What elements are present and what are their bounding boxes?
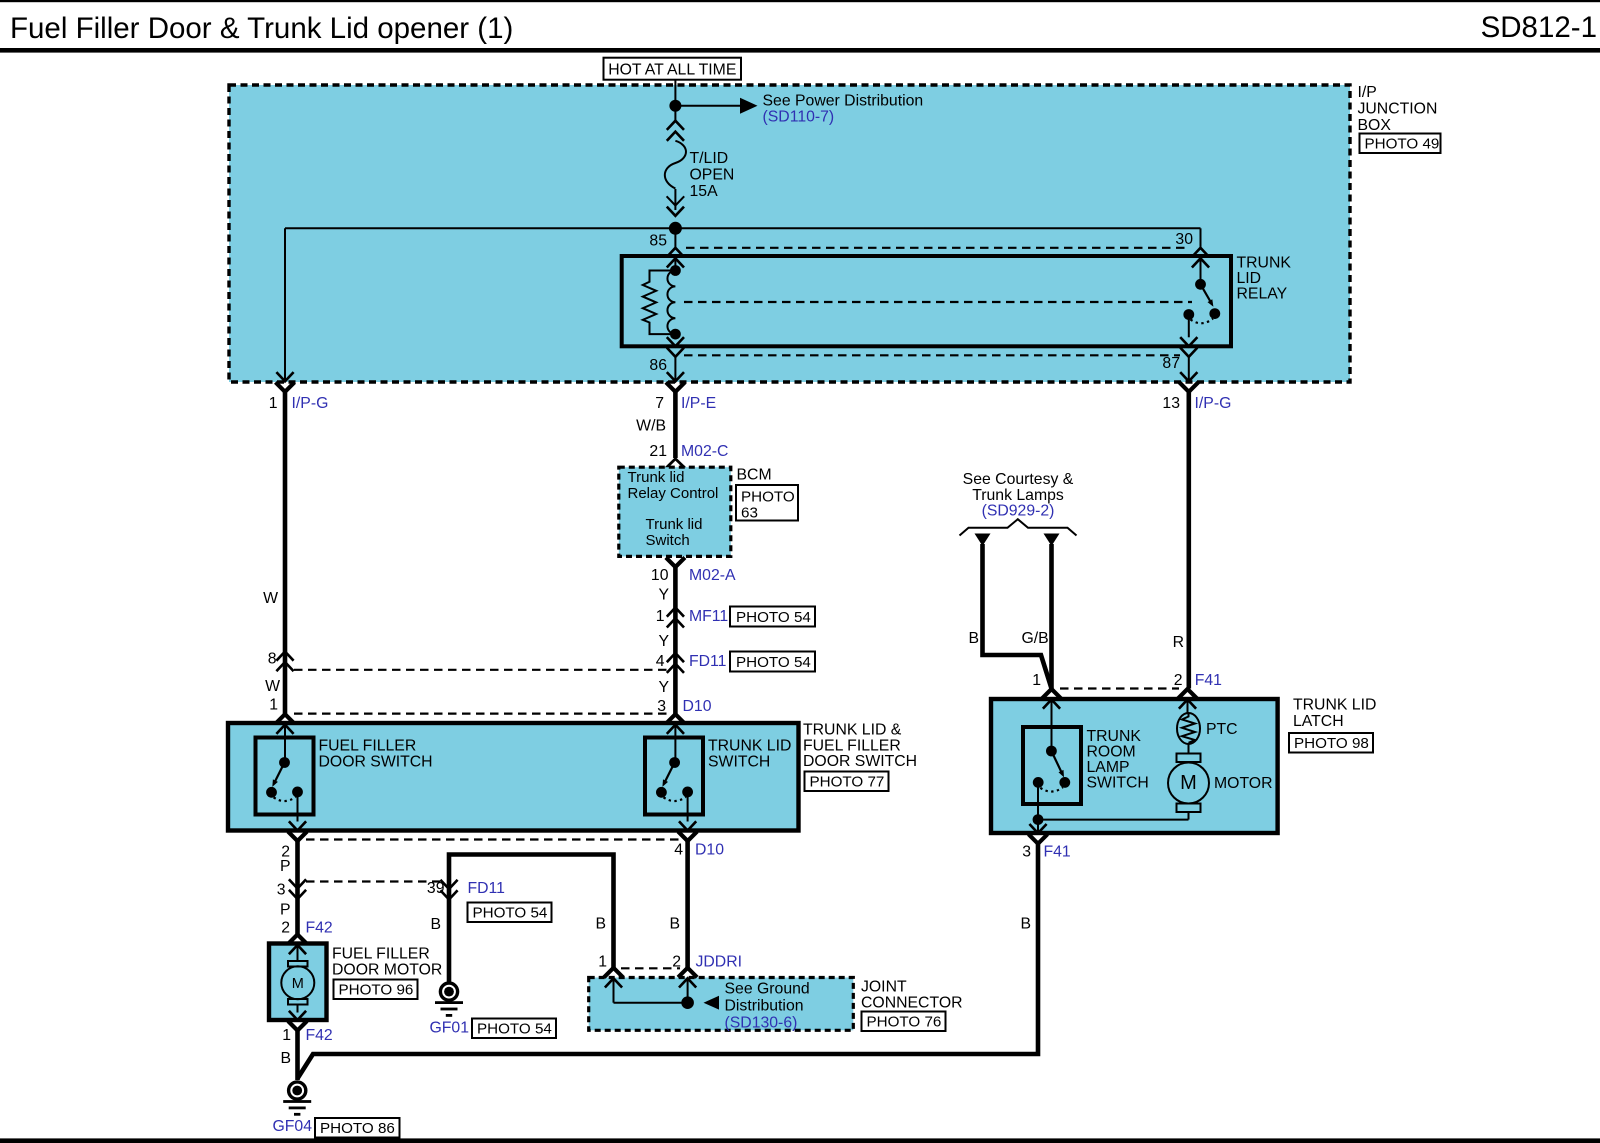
courtesy arrow G/B [1044,534,1060,547]
svg-text:G/B: G/B [1022,630,1049,647]
svg-text:T/LID: T/LID [690,150,729,167]
svg-text:M: M [292,976,304,992]
svg-text:Trunk lid: Trunk lid [628,469,685,486]
wire to relay pin 85 [674,228,676,247]
node junction dot above relay [669,222,682,235]
I/P box exit pin 1 I/P-G [276,372,293,381]
svg-text:3: 3 [277,882,286,899]
svg-text:(SD130-6): (SD130-6) [725,1015,798,1032]
dashed row 8 to 4 [294,669,667,671]
joint connector box (blue dashed) [589,978,854,1031]
svg-text:OPEN: OPEN [690,167,735,184]
svg-text:DOOR SWITCH: DOOR SWITCH [803,753,917,770]
svg-text:3: 3 [657,698,666,715]
page top border [0,0,1600,2]
trunk lid switch symbol [656,725,693,822]
fuel filler door motor symbol [281,945,314,1013]
svg-text:7: 7 [655,395,664,412]
svg-text:Trunk lid: Trunk lid [646,516,703,533]
svg-text:BCM: BCM [737,467,772,484]
I/P box exit pin 13 I/P-G [1180,372,1197,381]
fuel filler door switch sub box [256,738,314,815]
switch assembly box [228,723,799,831]
fuel filler door switch symbol [266,725,303,822]
motor exit pin 1 F42 [289,1011,306,1020]
svg-text:GF04: GF04 [273,1118,313,1135]
PHOTO 98 box [1289,733,1373,753]
svg-text:LATCH: LATCH [1293,713,1344,730]
ground GF04 [283,1082,311,1116]
latch pin 1 connector [1042,689,1061,699]
BCM box (blue dashed) [619,467,731,556]
pin 85 connector [667,248,684,257]
svg-text:BOX: BOX [1358,117,1392,134]
svg-text:PHOTO 77: PHOTO 77 [810,774,885,791]
svg-text:8: 8 [268,651,277,668]
wire motor to GF04 [295,1031,300,1081]
svg-text:30: 30 [1175,231,1193,248]
trunk lid switch sub box [645,738,703,815]
svg-text:3: 3 [1022,844,1031,861]
node junction dot at power feed [669,100,681,112]
svg-text:15A: 15A [690,183,719,200]
dashed pin row 85-30 [686,247,1190,249]
svg-text:B: B [430,916,441,933]
svg-text:See Courtesy &: See Courtesy & [963,471,1074,488]
svg-text:SWITCH: SWITCH [708,754,770,771]
svg-text:F42: F42 [306,1027,333,1044]
svg-text:PHOTO 54: PHOTO 54 [473,905,548,922]
svg-text:13: 13 [1162,395,1180,412]
svg-text:FUEL FILLER: FUEL FILLER [332,946,430,963]
svg-text:I/P: I/P [1358,84,1377,101]
fuse T/LID OPEN 15A [665,121,686,216]
pin 1 connector into switch box [276,714,295,724]
svg-text:F41: F41 [1044,844,1071,861]
dashed row 3 to 39 [306,880,440,882]
svg-text:(SD929-2): (SD929-2) [982,503,1055,520]
svg-text:FD11: FD11 [689,653,727,670]
svg-text:PHOTO 54: PHOTO 54 [477,1021,552,1038]
trunk room lamp switch sub box [1023,727,1081,804]
I/P box exit pin 7 I/P-E [667,372,684,381]
svg-text:Fuel Filler Door & Trunk Lid o: Fuel Filler Door & Trunk Lid opener (1) [10,12,513,45]
svg-text:I/P-G: I/P-G [1195,395,1232,412]
HOT AT ALL TIME box [604,58,742,80]
svg-text:PHOTO 54: PHOTO 54 [736,654,811,671]
svg-text:I/P-G: I/P-G [292,395,329,412]
wire from HOT box down [674,80,676,121]
svg-text:1: 1 [282,1027,291,1044]
svg-text:TRUNK LID: TRUNK LID [1293,697,1376,714]
connector 8 [276,652,293,661]
pin 3 connector into switch box [666,714,685,724]
svg-text:2: 2 [281,920,290,937]
svg-text:RELAY: RELAY [1237,286,1288,303]
svg-text:R: R [1173,634,1184,651]
svg-text:P: P [280,858,291,875]
svg-text:DOOR SWITCH: DOOR SWITCH [319,754,433,771]
svg-text:PHOTO 96: PHOTO 96 [339,982,414,999]
wire G/B from courtesy [1049,544,1054,689]
dashed row latch 1-2 [1060,687,1179,689]
svg-text:See Ground: See Ground [725,981,810,998]
svg-text:FUEL FILLER: FUEL FILLER [319,738,417,755]
svg-text:Y: Y [658,679,669,696]
svg-text:Y: Y [658,633,669,650]
svg-text:63: 63 [741,505,758,522]
svg-text:W: W [265,678,280,695]
svg-text:P: P [280,902,291,919]
svg-text:B: B [1020,916,1031,933]
connector 39 FD11 [440,880,457,889]
svg-text:PHOTO 54: PHOTO 54 [736,609,811,626]
svg-text:4: 4 [656,653,665,670]
svg-text:PHOTO 86: PHOTO 86 [320,1120,395,1137]
svg-text:M: M [1180,772,1197,794]
wire left branch down inside I/P box [284,228,286,381]
svg-text:PHOTO: PHOTO [741,489,795,506]
PTC symbol [1177,700,1200,754]
svg-text:JOINT: JOINT [861,979,907,996]
svg-text:Y: Y [658,587,669,604]
svg-text:D10: D10 [695,842,724,859]
svg-text:1: 1 [598,954,607,971]
wire 87 to box edge [1188,357,1190,381]
connector 4 FD11 [667,653,684,662]
dashed row 2 to 4 [306,838,679,840]
title separator line [0,48,1600,53]
svg-text:PHOTO 76: PHOTO 76 [867,1014,942,1031]
wire horizontal top of FD11 branch [449,855,614,982]
trunk lid latch box [991,699,1278,833]
svg-text:B: B [280,1050,291,1067]
svg-text:TRUNK LID: TRUNK LID [708,738,791,755]
wire horizontal distribution inside I/P box [285,227,1201,229]
svg-text:Relay Control: Relay Control [628,485,719,502]
svg-text:SWITCH: SWITCH [1087,775,1149,792]
pin 86 connector [667,337,684,346]
page bottom border [0,1138,1600,1143]
svg-text:Switch: Switch [646,532,690,549]
svg-text:D10: D10 [683,698,712,715]
svg-text:1: 1 [656,608,665,625]
svg-text:W/B: W/B [636,418,666,435]
svg-text:B: B [669,916,680,933]
svg-text:1: 1 [269,697,278,714]
wire left I/P-G down to connector 8 [283,392,288,714]
svg-text:SD812-1: SD812-1 [1481,11,1597,44]
PHOTO 54 box (GF01) [472,1019,556,1039]
coil node dots [670,265,681,276]
pin 2 connector into motor box [288,935,307,945]
PHOTO 76 box [862,1012,946,1032]
svg-text:1: 1 [1032,672,1041,689]
svg-text:PHOTO 98: PHOTO 98 [1294,735,1369,752]
connector 3 [289,879,306,888]
wire to relay pin 30 [1200,228,1202,247]
wire B from courtesy [983,544,1052,689]
svg-text:GF01: GF01 [430,1020,470,1037]
latch motor symbol [1038,754,1209,820]
connector 21 M02-C [665,459,686,469]
svg-text:LAMP: LAMP [1087,759,1130,776]
brace [960,519,1077,535]
PHOTO 54 box (FD11) [730,652,815,672]
svg-text:HOT AT ALL TIME: HOT AT ALL TIME [608,62,736,79]
svg-text:See Power Distribution: See Power Distribution [763,93,924,110]
I/P junction box (blue dashed) [229,85,1350,382]
JDDRI pin 2 connector [678,968,697,978]
svg-text:W: W [263,590,278,607]
trunk room lamp switch symbol [1033,700,1071,834]
svg-text:86: 86 [649,357,667,374]
svg-text:10: 10 [651,567,669,584]
pin 87 connector [1180,337,1197,346]
connector 1 MF11 [667,608,684,617]
dashed relay middle row [684,301,1192,303]
PHOTO 63 box [736,485,798,522]
svg-text:ROOM: ROOM [1087,744,1136,761]
svg-text:TRUNK LID &: TRUNK LID & [803,722,902,739]
svg-text:85: 85 [649,233,667,250]
relay coil resistor [643,271,676,335]
svg-text:LID: LID [1237,270,1262,287]
svg-text:4: 4 [674,842,683,859]
PHOTO 96 box [334,980,418,1000]
svg-text:B: B [968,630,979,647]
wire 86 to box edge [674,357,676,381]
svg-text:F41: F41 [1195,672,1222,689]
svg-text:MOTOR: MOTOR [1214,775,1273,792]
svg-text:FD11: FD11 [468,880,506,897]
svg-text:JUNCTION: JUNCTION [1358,101,1438,118]
svg-text:F42: F42 [306,920,333,937]
pin 4 D10 exit connector [679,821,696,830]
relay switch (30-87) [1183,258,1220,337]
PHOTO 54 box (MF11) [730,607,815,627]
dashed row JDDRI 1-2 [621,967,680,969]
JDDRI pin 1 connector [604,968,623,978]
svg-text:87: 87 [1162,355,1180,372]
svg-text:21: 21 [649,443,667,460]
svg-text:Distribution: Distribution [725,998,804,1015]
svg-text:Trunk Lamps: Trunk Lamps [972,487,1064,504]
PHOTO 54 box (FD11 39) [468,903,552,923]
dashed row 1 to 3 [294,712,667,714]
wire latch pin3 down and across to GF04 [298,844,1039,1079]
wire center I/P-E down [673,392,678,458]
svg-text:FUEL FILLER: FUEL FILLER [803,738,901,755]
svg-text:I/P-E: I/P-E [681,395,716,412]
ground GF01 [435,983,463,1017]
PHOTO 86 box [315,1118,400,1138]
svg-text:JDDRI: JDDRI [696,954,743,971]
svg-text:B: B [595,916,606,933]
svg-text:(SD110-7): (SD110-7) [763,109,835,126]
wire trunk lid switch pin 4 down to JDDRI 2 [685,841,690,968]
svg-text:TRUNK: TRUNK [1087,728,1142,745]
svg-text:PHOTO 49: PHOTO 49 [1365,136,1440,153]
BCM exit pin 10 M02-A [666,558,685,568]
svg-text:39: 39 [427,880,445,897]
svg-text:MF11: MF11 [689,608,728,625]
svg-text:CONNECTOR: CONNECTOR [861,995,963,1012]
joint connector internal wires [613,978,615,1002]
PHOTO 49 box [1360,134,1441,154]
svg-text:PTC: PTC [1206,721,1238,738]
svg-text:M02-C: M02-C [681,443,728,460]
relay coil [667,258,675,337]
svg-text:DOOR MOTOR: DOOR MOTOR [332,962,442,979]
latch pin 2 connector [1178,689,1197,699]
svg-text:M02-A: M02-A [689,567,736,584]
PHOTO 77 box [805,772,889,792]
pin 30 connector [1192,248,1209,257]
pin 2 exit connector [289,821,306,830]
svg-text:2: 2 [1174,672,1183,689]
wire pin2 down to connector 3 [295,841,300,935]
wire M02-A down to MF11 [673,567,678,714]
wire arrow to See Power Distribution [675,105,741,107]
latch exit pin 3 F41 [1029,824,1046,833]
wire R from I/P-G 13 down [1187,392,1192,689]
svg-text:1: 1 [269,395,278,412]
dashed pin row 86-87 [684,354,1180,356]
fuel filler door motor box [269,944,327,1021]
trunk lid relay box [622,256,1231,346]
svg-text:TRUNK: TRUNK [1237,255,1292,272]
courtesy arrow B [975,534,991,547]
